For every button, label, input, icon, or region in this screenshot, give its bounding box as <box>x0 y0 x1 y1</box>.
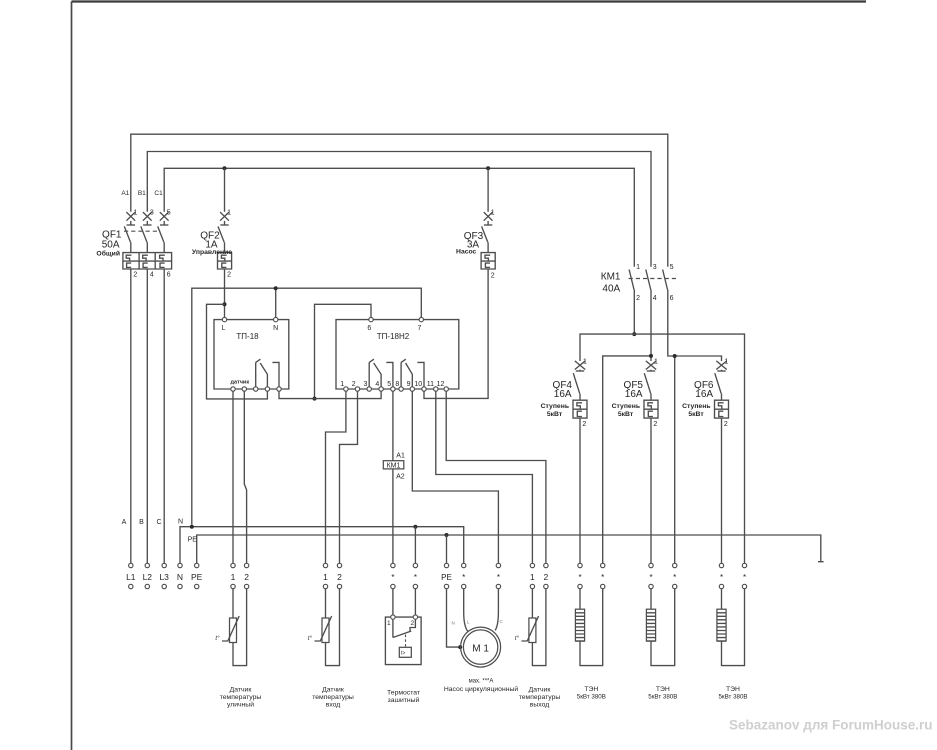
controller TP-18 <box>214 317 289 391</box>
svg-text:N: N <box>177 572 183 582</box>
svg-text:A1: A1 <box>396 453 405 460</box>
svg-text:зашитный: зашитный <box>388 696 420 704</box>
svg-text:C1: C1 <box>154 190 163 197</box>
svg-text:2: 2 <box>724 421 728 428</box>
wire phase bus C1 (QF1 pole3 to KM1 pin1) <box>164 168 634 266</box>
wire QF5 feed and TEN1 return <box>603 356 651 563</box>
svg-text:3: 3 <box>653 264 657 271</box>
circuit breaker QF5 16A Ступень 5кВт <box>612 359 658 429</box>
wire TP-18N2 pin6 feed <box>315 304 372 398</box>
wire pin1 to inlet sensor 1 <box>326 391 346 563</box>
svg-text:*: * <box>601 573 604 582</box>
svg-text:уличный: уличный <box>227 701 254 709</box>
svg-text:5кВт: 5кВт <box>688 411 704 418</box>
wire PE bus <box>197 535 824 563</box>
svg-text:М 1: М 1 <box>472 644 489 655</box>
node KM1 pole1 junction <box>632 332 636 336</box>
terminals L1 L2 L3 N PE <box>126 563 203 588</box>
wire QF3 output to TP-18N2 pin10 <box>424 269 488 398</box>
contactor coil KM1 A1-A2 <box>383 453 405 481</box>
heating element TEN3 5kW <box>717 589 748 701</box>
svg-text:2: 2 <box>352 381 356 388</box>
svg-text:N: N <box>452 621 455 626</box>
wire QF2 output to TP-18 L <box>224 269 226 317</box>
wire N bus <box>180 527 464 564</box>
wire QF6 output <box>721 418 723 563</box>
svg-text:5кВт 380В: 5кВт 380В <box>577 694 606 701</box>
svg-text:Датчик: Датчик <box>230 687 252 694</box>
wire KM1 pole1 out <box>633 290 635 335</box>
svg-text:1: 1 <box>654 359 658 366</box>
svg-text:ТЭН: ТЭН <box>656 686 670 693</box>
svg-text:вход: вход <box>326 702 341 709</box>
protective thermostat SK <box>385 589 421 704</box>
svg-text:ТЭН: ТЭН <box>584 686 598 693</box>
svg-text:5кВт 380В: 5кВт 380В <box>718 694 747 701</box>
svg-text:2: 2 <box>410 620 414 627</box>
svg-text:Насос циркуляционный: Насос циркуляционный <box>444 685 519 693</box>
thermistor inlet temperature sensor <box>308 589 354 709</box>
svg-text:*: * <box>462 573 465 582</box>
thermistor outdoor temperature sensor <box>215 589 261 709</box>
node QF3 tap on bus C1 <box>486 166 490 170</box>
wire phase rail to QF4 and TEN3 return <box>580 334 745 563</box>
motor M1 circulation pump <box>444 589 519 693</box>
circuit breaker QF6 16A Ступень 5кВт <box>682 359 728 429</box>
terminals outlet sensor 1 2 <box>530 563 549 588</box>
svg-text:ТП-18: ТП-18 <box>236 332 259 341</box>
svg-text:t°: t° <box>515 636 520 642</box>
circuit breaker QF2 1A Управление <box>192 210 232 279</box>
svg-text:1: 1 <box>340 381 344 388</box>
node N riser junction <box>190 525 194 529</box>
circuit breaker QF3 3A Насос <box>456 210 495 280</box>
svg-text:16A: 16A <box>554 389 572 400</box>
wire N rail (TP-18N2 pin7 to N bus) <box>192 288 421 525</box>
contactor KM1 40A main contacts <box>601 264 676 302</box>
wire TEN2 return drop <box>674 356 676 563</box>
svg-text:3: 3 <box>150 210 154 217</box>
svg-text:*: * <box>391 573 394 582</box>
watermark <box>729 718 933 734</box>
svg-text:16A: 16A <box>695 389 713 400</box>
svg-text:Sebazanov для ForumHouse.ru: Sebazanov для ForumHouse.ru <box>729 718 933 733</box>
wire L feed to TP-18 pin4 <box>207 304 268 399</box>
svg-text:4: 4 <box>375 381 379 388</box>
svg-text:B1: B1 <box>138 190 146 197</box>
terminals TEN2 <box>649 563 677 588</box>
wire L rail TP-18 pin5 to TP-18N2 pin4 <box>279 391 381 398</box>
svg-text:9: 9 <box>407 381 411 388</box>
svg-text:L1: L1 <box>126 572 136 582</box>
svg-text:PE: PE <box>188 537 198 544</box>
node TEN2 return junction <box>673 354 677 358</box>
wire phase C to L3 <box>163 269 165 563</box>
node N junction at TP-18 <box>274 286 278 290</box>
node pump PE junction <box>445 533 449 537</box>
wire phase A to L1 <box>130 269 132 563</box>
svg-text:КМ1: КМ1 <box>601 272 621 283</box>
wire sensor outdoor 1 <box>232 391 234 563</box>
svg-text:выход: выход <box>530 702 549 709</box>
wire phase B to L2 <box>146 269 148 563</box>
circuit breaker QF4 16A Ступень 5кВт <box>541 359 587 429</box>
svg-text:1: 1 <box>583 359 587 366</box>
svg-text:5кВт: 5кВт <box>547 411 563 418</box>
svg-text:2: 2 <box>244 572 249 582</box>
svg-text:2: 2 <box>636 295 640 302</box>
svg-text:5кВт: 5кВт <box>618 411 634 418</box>
node QF2 tap on bus C1 <box>223 166 227 170</box>
svg-text:1: 1 <box>227 210 231 217</box>
svg-text:2: 2 <box>337 572 342 582</box>
wire KM1 pole2 out to QF5 <box>650 290 652 362</box>
svg-text:датчик: датчик <box>231 380 250 386</box>
svg-text:12: 12 <box>437 381 445 388</box>
svg-text:2: 2 <box>491 272 495 279</box>
terminals TEN1 <box>578 563 605 588</box>
svg-text:B: B <box>139 519 144 526</box>
svg-text:1: 1 <box>387 620 391 627</box>
svg-text:2: 2 <box>582 421 586 428</box>
svg-text:t>: t> <box>401 651 405 657</box>
svg-text:t°: t° <box>308 636 313 642</box>
terminals pump PE L N <box>441 563 500 588</box>
wire pin5 through KM1 coil to thermostat <box>392 391 394 563</box>
wire pin9 to pump <box>412 391 498 563</box>
svg-text:Ступень: Ступень <box>612 403 640 410</box>
svg-text:t°: t° <box>215 636 220 642</box>
svg-text:6: 6 <box>670 295 674 302</box>
svg-text:5кВт 380В: 5кВт 380В <box>648 694 677 701</box>
svg-text:5: 5 <box>167 210 171 217</box>
svg-text:ТП-18Н2: ТП-18Н2 <box>377 332 410 341</box>
svg-text:1: 1 <box>491 210 495 217</box>
wire pin2 to inlet sensor 2 <box>340 391 358 563</box>
wire pin11 to outlet sensor 1 <box>436 391 533 563</box>
svg-text:температуры: температуры <box>220 694 262 701</box>
svg-text:КМ1: КМ1 <box>387 462 401 469</box>
svg-text:*: * <box>649 573 652 582</box>
svg-text:1: 1 <box>530 572 535 582</box>
node L rail junction <box>313 397 317 401</box>
svg-text:40A: 40A <box>602 284 620 295</box>
thermistor outlet temperature sensor <box>515 589 561 709</box>
wire sensor outdoor 2 <box>244 391 246 563</box>
wire QF2 feed <box>224 168 226 212</box>
svg-text:1: 1 <box>133 210 137 217</box>
svg-text:*: * <box>414 573 417 582</box>
svg-text:Управление: Управление <box>192 249 232 256</box>
svg-text:C: C <box>156 519 161 526</box>
svg-text:*: * <box>673 573 676 582</box>
svg-text:A2: A2 <box>396 474 405 481</box>
svg-text:температуры: температуры <box>519 694 561 701</box>
svg-text:Датчик: Датчик <box>529 687 551 694</box>
svg-text:Ступень: Ступень <box>541 403 569 410</box>
svg-text:16A: 16A <box>625 389 643 400</box>
svg-text:температуры: температуры <box>312 694 354 701</box>
svg-text:10: 10 <box>414 381 422 388</box>
heating element TEN1 5kW <box>575 589 605 701</box>
controller TP-18N2 <box>336 317 459 391</box>
svg-text:L: L <box>222 325 226 332</box>
svg-text:Насос: Насос <box>456 249 477 256</box>
svg-text:*: * <box>578 573 581 582</box>
terminals outdoor sensor 1 2 <box>231 563 250 588</box>
wire QF5 output <box>650 418 652 563</box>
svg-text:Датчик: Датчик <box>322 687 344 694</box>
svg-text:Общий: Общий <box>96 250 120 258</box>
svg-text:2: 2 <box>653 421 657 428</box>
svg-text:1: 1 <box>231 572 236 582</box>
svg-text:N: N <box>273 325 278 332</box>
svg-text:6: 6 <box>167 271 171 278</box>
svg-text:2: 2 <box>227 271 231 278</box>
svg-text:*: * <box>743 573 746 582</box>
svg-text:PE: PE <box>191 572 203 582</box>
svg-text:*: * <box>720 573 723 582</box>
svg-text:Термостат: Термостат <box>387 690 420 697</box>
svg-text:2: 2 <box>133 271 137 278</box>
terminals TEN3 <box>719 563 746 588</box>
node QF2-L junction <box>223 302 227 306</box>
wire pump PE drop <box>446 535 448 563</box>
svg-text:*: * <box>497 573 500 582</box>
svg-text:L3: L3 <box>159 572 169 582</box>
svg-text:A: A <box>122 519 127 526</box>
circuit breaker QF1 50A <box>96 210 171 279</box>
svg-text:7: 7 <box>418 325 422 332</box>
svg-text:N: N <box>178 519 183 526</box>
heating element TEN2 5kW <box>646 589 677 701</box>
node thermostat N junction <box>413 525 417 529</box>
svg-text:L2: L2 <box>143 572 153 582</box>
svg-text:8: 8 <box>395 381 399 388</box>
svg-text:A1: A1 <box>121 190 129 197</box>
svg-text:ТЭН: ТЭН <box>726 686 740 693</box>
svg-text:2: 2 <box>544 572 549 582</box>
wire thermostat terminal 2 riser <box>414 527 416 564</box>
wire TP-18 N up <box>275 288 277 317</box>
svg-text:мах. ***А: мах. ***А <box>469 678 494 684</box>
svg-text:3: 3 <box>363 381 367 388</box>
terminals thermostat <box>391 563 418 588</box>
svg-text:1: 1 <box>636 264 640 271</box>
svg-text:11: 11 <box>427 381 434 388</box>
svg-text:5: 5 <box>670 264 674 271</box>
svg-text:1: 1 <box>725 359 729 366</box>
svg-text:4: 4 <box>653 295 657 302</box>
svg-text:5: 5 <box>387 381 391 388</box>
wire phase bus B1 (QF1 pole2 to KM1 pin3) <box>147 152 651 267</box>
svg-text:4: 4 <box>150 271 154 278</box>
wire QF4 output <box>579 418 581 563</box>
svg-text:Ступень: Ступень <box>682 403 710 410</box>
svg-text:50A: 50A <box>102 239 120 250</box>
svg-text:1: 1 <box>323 572 328 582</box>
svg-text:6: 6 <box>367 325 371 332</box>
terminals inlet sensor 1 2 <box>323 563 342 588</box>
node QF5 feed junction <box>649 354 653 358</box>
wire pin12 to outlet sensor 2 <box>446 391 546 563</box>
svg-text:PE: PE <box>441 573 452 582</box>
wire QF3 feed <box>487 168 489 212</box>
wire phase bus A1 (QF1 pole1 to KM1 pin5) <box>131 134 668 267</box>
wire KM1 pole3 out to QF6 feed <box>668 290 722 362</box>
